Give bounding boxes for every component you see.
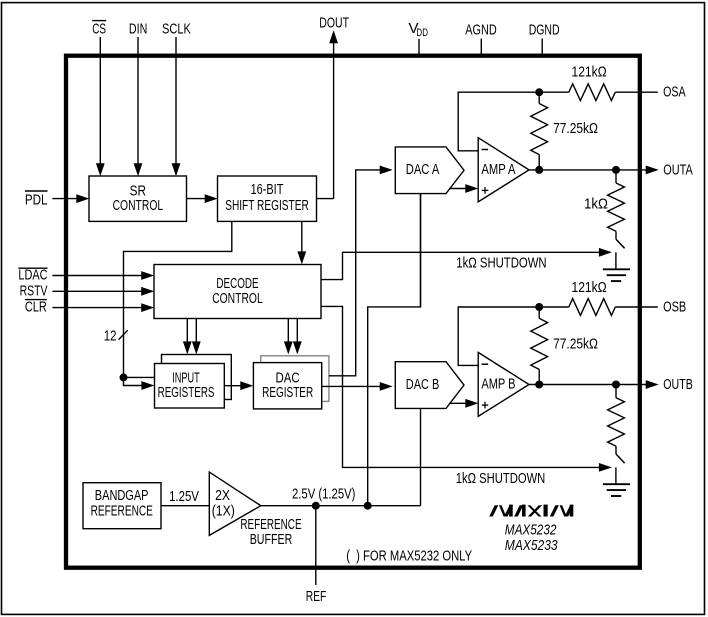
wire bandgap to buffer <box>161 505 209 507</box>
pin PDL label <box>25 191 48 208</box>
PDL overline <box>25 190 48 192</box>
block DAC REGISTER <box>253 363 321 409</box>
shutdown switch A blade <box>616 239 625 248</box>
pin DIN label <box>129 21 147 38</box>
resistor 121kΩ (A) <box>569 84 616 101</box>
wire DAC REGISTER to DAC B <box>322 385 382 387</box>
wire AMP A output <box>529 169 648 171</box>
svg-text:121kΩ: 121kΩ <box>572 64 607 81</box>
arrow DAC register a <box>284 341 293 354</box>
svg-text:CS: CS <box>92 21 106 38</box>
wire OSB line <box>539 306 569 308</box>
node OUTB resistor tap <box>612 381 620 389</box>
pin OSA label <box>663 84 686 101</box>
wire DIN <box>137 37 139 164</box>
svg-text:2X: 2X <box>215 488 230 504</box>
arrow DAC register b <box>293 341 302 354</box>
wire DAC B to AMP B + <box>449 402 467 404</box>
wire RSTV <box>52 290 143 292</box>
svg-text:( ) FOR MAX5232 ONLY: ( ) FOR MAX5232 ONLY <box>346 548 472 565</box>
arrow into SR (CS) <box>96 163 105 176</box>
label 121kΩ (A) <box>572 64 607 81</box>
ground (A) <box>603 269 630 281</box>
svg-text:16-BIT: 16-BIT <box>251 182 284 198</box>
pin LDAC label <box>18 266 47 283</box>
svg-text:OUTA: OUTA <box>663 161 693 178</box>
label MAX5232 <box>505 522 557 539</box>
reference buffer (triangle) <box>209 472 260 535</box>
svg-text:DIN: DIN <box>129 21 147 38</box>
arrow into DECODE (RSTV) <box>141 287 154 296</box>
block 16-BIT SHIFT REGISTER <box>218 176 317 221</box>
label 1kΩ (A) <box>584 195 608 212</box>
resistor 121kΩ (B) <box>569 299 616 316</box>
arrow DOUT (up) <box>329 30 338 43</box>
wire AMP A feedback <box>458 92 539 151</box>
svg-text:OSA: OSA <box>663 84 686 101</box>
block DECODE CONTROL <box>154 265 321 319</box>
svg-text:OUTB: OUTB <box>663 376 693 393</box>
svg-text:77.25kΩ: 77.25kΩ <box>553 335 598 352</box>
svg-text:DOUT: DOUT <box>319 14 349 31</box>
svg-text:RSTV: RSTV <box>20 282 48 299</box>
wire VDD stub <box>418 39 420 56</box>
svg-text:INPUT: INPUT <box>172 371 200 387</box>
svg-text:SCLK: SCLK <box>162 21 191 38</box>
node AMP B output <box>535 381 543 389</box>
svg-text:1kΩ SHUTDOWN: 1kΩ SHUTDOWN <box>456 470 546 487</box>
wire reference to DAC A <box>368 194 421 506</box>
label 1kΩ SHUTDOWN (A) <box>456 254 546 271</box>
CLR overline <box>25 299 47 301</box>
node feedback B <box>535 303 543 311</box>
wire OSB to pin <box>615 306 658 308</box>
wire DECODE to shutdown B <box>321 306 601 467</box>
resistor 1kΩ (B) <box>608 385 625 454</box>
label REFERENCE BUFFER <box>240 517 301 548</box>
svg-text:MAX5232: MAX5232 <box>505 522 557 539</box>
MAXIM logo <box>489 505 574 517</box>
label ( ) FOR MAX5232 ONLY <box>346 548 472 565</box>
wire DECODE to shutdown A <box>321 252 601 279</box>
svg-text:REFERENCE: REFERENCE <box>91 503 153 519</box>
shutdown switch B contact <box>615 467 617 484</box>
arrow OUTB <box>646 380 659 389</box>
arrow into DAC B <box>380 382 393 391</box>
DECODE CONTROL text <box>212 276 263 307</box>
arrow into SR (SCLK) <box>172 163 181 176</box>
pin VDD label <box>409 20 429 39</box>
arrow OUTA <box>646 166 659 175</box>
wire INPUT REGISTERS to DAC REGISTER <box>224 385 243 387</box>
AMP A plus <box>482 187 489 194</box>
wire REF pin stub <box>315 506 317 585</box>
svg-text:1.25V: 1.25V <box>169 488 199 505</box>
pin REF label <box>306 588 327 605</box>
svg-text:2.5V (1.25V): 2.5V (1.25V) <box>292 485 355 502</box>
block INPUT REGISTERS <box>155 364 225 409</box>
pin SCLK label <box>162 21 191 38</box>
resistor 1kΩ (A) <box>608 170 625 239</box>
arrow into shift register <box>205 194 218 203</box>
node reference to DACs junction <box>364 502 372 510</box>
wire shift register to decode <box>301 221 303 253</box>
shutdown switch B blade <box>616 454 625 463</box>
svg-text:DAC: DAC <box>276 371 300 387</box>
svg-text:77.25kΩ: 77.25kΩ <box>553 120 598 137</box>
pin DGND label <box>529 22 560 39</box>
wire DOUT to shift register <box>317 198 334 200</box>
wire bus to input registers upper <box>124 376 155 378</box>
svg-text:AMP A: AMP A <box>481 162 515 178</box>
wire SR to shift register <box>187 198 207 200</box>
pin DOUT label <box>319 14 349 31</box>
label 12 <box>104 327 117 344</box>
node AMP A output <box>535 166 543 174</box>
arrow into AMP A + <box>465 184 478 193</box>
arrow into DECODE top <box>297 251 306 264</box>
label 2.5V (1.25V) <box>292 485 355 502</box>
block DAC REGISTER shadow (gray) <box>261 356 329 402</box>
op-amp AMP A <box>478 138 529 202</box>
AMP B text <box>481 377 515 393</box>
svg-text:PDL: PDL <box>25 191 48 208</box>
svg-text:REGISTER: REGISTER <box>262 385 313 401</box>
DAC REGISTER text <box>262 371 313 402</box>
node feedback A <box>535 88 543 96</box>
svg-text:OSB: OSB <box>663 298 686 315</box>
wire CLR <box>52 307 143 309</box>
svg-text:12: 12 <box>104 327 117 344</box>
wire AMP B output <box>529 384 648 386</box>
svg-text:1kΩ SHUTDOWN: 1kΩ SHUTDOWN <box>456 254 546 271</box>
svg-text:DGND: DGND <box>529 22 560 39</box>
svg-text:REF: REF <box>306 588 327 605</box>
INPUT REGISTERS text <box>158 371 215 402</box>
pin OSB label <box>663 298 686 315</box>
label 77.25kΩ (A) <box>553 120 598 137</box>
wire DECODE to input registers a <box>186 319 188 344</box>
wire PDL <box>52 198 78 200</box>
arrow into DECODE (CLR) <box>141 303 154 312</box>
ground (B) <box>603 484 630 496</box>
resistor 77.25kΩ (B) <box>531 307 548 385</box>
arrow into SR (DIN) <box>134 163 143 176</box>
svg-text:CLR: CLR <box>25 299 47 316</box>
wire bus to input registers lower <box>124 377 144 385</box>
block BANDGAP REFERENCE <box>83 483 161 529</box>
label 121kΩ (B) <box>572 279 607 296</box>
svg-text:REFERENCE: REFERENCE <box>240 517 301 533</box>
arrow shutdown switch A <box>599 248 612 257</box>
wire DECODE to input registers b <box>195 319 197 344</box>
wire shift register down-left elbow <box>124 221 232 377</box>
arrow into DECODE (LDAC) <box>141 271 154 280</box>
op-amp AMP B <box>478 352 529 416</box>
block INPUT REGISTERS shadow <box>162 355 232 400</box>
LDAC overline <box>18 267 47 269</box>
svg-text:DAC A: DAC A <box>406 162 440 178</box>
wire OSA to pin <box>615 91 658 93</box>
svg-text:DECODE: DECODE <box>216 276 258 292</box>
arrow into SR (PDL) <box>76 194 89 203</box>
svg-text:(1X): (1X) <box>212 503 235 519</box>
pin CS label <box>92 21 106 38</box>
wire DOUT vertical <box>333 43 335 199</box>
node REF pin junction <box>312 502 320 510</box>
CS overline <box>92 20 106 22</box>
svg-text:LDAC: LDAC <box>18 266 47 283</box>
chip boundary (thick) <box>66 56 640 568</box>
block SR CONTROL <box>89 176 187 221</box>
svg-text:DAC B: DAC B <box>406 377 440 393</box>
pin OUTB label <box>663 376 693 393</box>
wire DECODE to DAC register a <box>287 319 289 344</box>
DAC B text <box>406 377 440 393</box>
DAC A (pentagon) <box>395 147 464 194</box>
svg-text:DD: DD <box>416 27 428 39</box>
label MAX5233 <box>505 537 558 554</box>
16-BIT SHIFT REGISTER text <box>225 182 309 214</box>
wire reference to DAC B <box>420 408 422 505</box>
wire LDAC <box>52 275 143 277</box>
svg-text:REGISTERS: REGISTERS <box>158 385 215 401</box>
arrow shutdown switch B <box>599 463 612 472</box>
node bus junction <box>120 373 128 381</box>
svg-text:AGND: AGND <box>465 22 497 39</box>
wire DAC A bottom stub <box>420 194 422 307</box>
svg-text:BANDGAP: BANDGAP <box>95 488 149 504</box>
arrow into INPUT REGISTERS <box>141 381 154 390</box>
svg-text:121kΩ: 121kΩ <box>572 279 607 296</box>
svg-text:CONTROL: CONTROL <box>212 291 263 307</box>
DAC B (pentagon) <box>395 362 464 409</box>
wire SCLK <box>175 37 177 164</box>
wire DECODE to DAC register b <box>296 319 298 344</box>
arrow into AMP B + <box>465 399 478 408</box>
AMP B plus <box>482 402 489 409</box>
svg-text:MAX5233: MAX5233 <box>505 537 558 554</box>
svg-text:1kΩ: 1kΩ <box>584 195 608 212</box>
resistor 77.25kΩ (A) <box>531 92 548 170</box>
wire CS <box>99 37 101 164</box>
wire AGND stub <box>480 39 482 56</box>
svg-text:BUFFER: BUFFER <box>250 532 293 548</box>
svg-text:SR: SR <box>130 183 146 199</box>
svg-text:CONTROL: CONTROL <box>113 198 164 214</box>
svg-text:SHIFT REGISTER: SHIFT REGISTER <box>225 198 309 214</box>
arrow into DAC REGISTER <box>240 381 253 390</box>
arrow input registers b <box>192 341 201 354</box>
pin AGND label <box>465 22 497 39</box>
shutdown switch A contact <box>615 252 617 269</box>
arrow input registers a <box>183 341 192 354</box>
wire DGND stub <box>541 39 543 56</box>
wire DAC A to AMP A + <box>449 188 467 190</box>
wire DAC REGISTER to DAC A <box>329 170 382 376</box>
DAC A text <box>406 162 440 178</box>
wire OSA line <box>539 91 569 93</box>
pin RSTV label <box>20 282 48 299</box>
svg-text:AMP B: AMP B <box>481 377 515 393</box>
wire reference rail <box>261 505 421 507</box>
bus slash (12 bits) <box>119 330 128 339</box>
BANDGAP REFERENCE text <box>91 488 153 520</box>
label 1kΩ SHUTDOWN (B) <box>456 470 546 487</box>
SR CONTROL text <box>113 183 164 214</box>
buffer gain text <box>212 488 235 520</box>
AMP A text <box>481 162 515 178</box>
node OUTA resistor tap <box>612 166 620 174</box>
pin OUTA label <box>663 161 693 178</box>
arrow into DAC A <box>380 166 393 175</box>
pin CLR label <box>25 299 47 316</box>
AMP A minus <box>482 149 489 151</box>
label 77.25kΩ (B) <box>553 335 598 352</box>
AMP B minus <box>482 363 489 365</box>
label 1.25V <box>169 488 199 505</box>
wire AMP B feedback <box>458 307 539 365</box>
